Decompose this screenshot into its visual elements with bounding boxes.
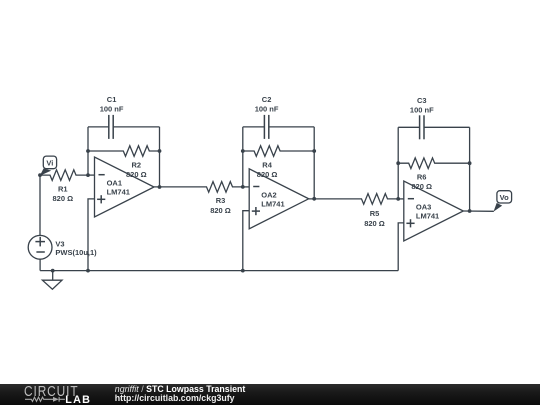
svg-text:820 Ω: 820 Ω [210, 206, 231, 215]
svg-text:820 Ω: 820 Ω [364, 219, 385, 228]
svg-text:C2: C2 [262, 95, 272, 104]
junction OA2 minus input [241, 185, 245, 189]
svg-text:C3: C3 [417, 96, 427, 105]
junction R4 right [312, 149, 316, 153]
label R6 [411, 172, 432, 191]
stage 2 feedback right vertical wire [313, 127, 315, 199]
resistor R4 [243, 146, 314, 157]
svg-text:OA3: OA3 [416, 203, 431, 212]
svg-text:OA1: OA1 [107, 179, 122, 188]
capacitor C3 [398, 96, 469, 139]
junction OA3 minus input [396, 197, 400, 201]
svg-text:LM741: LM741 [107, 188, 130, 197]
footer bar [0, 384, 540, 405]
junction R6 left [396, 161, 400, 165]
svg-text:820 Ω: 820 Ω [257, 170, 278, 179]
svg-text:820 Ω: 820 Ω [52, 194, 73, 203]
junction R2 right [158, 149, 162, 153]
capacitor C2 [243, 95, 314, 139]
resistor R2 [88, 146, 160, 157]
svg-text:820 Ω: 820 Ω [411, 182, 432, 191]
node A junction (Vi / R1 / V3) [38, 173, 42, 177]
svg-text:100 nF: 100 nF [100, 105, 124, 114]
resistor R3 [154, 182, 243, 215]
svg-text:820 Ω: 820 Ω [126, 170, 147, 179]
CircuitLab logo glyph (resistor + diode) [25, 396, 65, 403]
resistor R6 [398, 158, 469, 169]
label R2 [126, 160, 147, 179]
op-amp OA3 [404, 181, 464, 241]
resistor R5 [309, 194, 399, 228]
resistor R1 [40, 170, 88, 203]
wire V3 bottom to rail [39, 259, 41, 270]
junction OA1 minus input [86, 173, 90, 177]
wire OA3 plus input [398, 223, 404, 271]
wire minus stub OA1 [88, 174, 95, 176]
wire OA2 plus input [243, 211, 249, 271]
svg-text:R6: R6 [417, 172, 427, 181]
footer url line [115, 394, 235, 403]
op-amp OA1 [95, 157, 155, 217]
svg-text:R3: R3 [216, 196, 226, 205]
op-amp OA2 [249, 169, 309, 229]
junction OA1 output [158, 185, 162, 189]
junction OA3 output [468, 209, 472, 213]
junction ground-rail [51, 269, 55, 273]
wire minus stub OA2 [243, 186, 249, 188]
junction OA1+ at rail [86, 269, 90, 273]
voltage source V3 [28, 235, 97, 259]
ground [42, 271, 62, 290]
svg-text:OA2: OA2 [261, 190, 276, 199]
footer title line [115, 385, 246, 394]
junction OA2+ at rail [241, 269, 245, 273]
stage 1 feedback left vertical wire [87, 127, 89, 175]
svg-text:LM741: LM741 [416, 212, 439, 221]
junction OA2 output [312, 197, 316, 201]
svg-text:Vi: Vi [46, 159, 53, 168]
stage 3 feedback left vertical wire [397, 127, 399, 199]
wire OA3 output to Vo [463, 210, 494, 212]
junction R2 left [86, 149, 90, 153]
wire OA1 plus input [88, 199, 95, 271]
svg-text:100 nF: 100 nF [255, 105, 279, 114]
CircuitLab logo word LAB [65, 395, 91, 406]
junction R6 right [468, 161, 472, 165]
net flag Vo [494, 191, 512, 212]
svg-text:C1: C1 [107, 95, 117, 104]
junction R4 left [241, 149, 245, 153]
stage 3 feedback right vertical wire [469, 127, 471, 211]
svg-text:100 nF: 100 nF [410, 105, 434, 114]
wire minus stub OA3 [398, 198, 404, 200]
svg-text:PWS(10u,1): PWS(10u,1) [55, 248, 97, 257]
svg-text:R4: R4 [262, 160, 272, 169]
CircuitLab logo word CIRCUIT [24, 385, 79, 399]
svg-text:R5: R5 [370, 209, 380, 218]
net flag Vi [40, 156, 57, 176]
bottom ground rail wire [40, 270, 398, 272]
svg-text:R2: R2 [132, 160, 142, 169]
svg-text:LM741: LM741 [261, 199, 284, 208]
stage 2 feedback left vertical wire [242, 127, 244, 187]
label R4 [257, 160, 278, 179]
wire V3 to node A [39, 175, 41, 235]
stage 1 feedback right vertical wire [159, 127, 161, 187]
svg-text:Vo: Vo [500, 193, 509, 202]
capacitor C1 [88, 95, 160, 139]
svg-text:R1: R1 [58, 184, 68, 193]
